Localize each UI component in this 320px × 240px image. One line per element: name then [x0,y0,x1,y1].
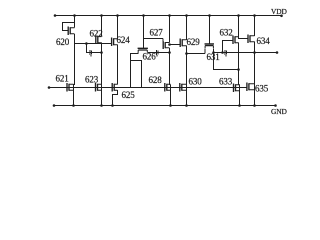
node cap1 to 622 source [100,51,103,54]
node cap2 to 627 source [168,51,171,54]
wire 627 gate stub [162,39,164,42]
node output junction [253,51,256,54]
node GND tap [253,104,256,107]
capacitor C1 [90,50,92,57]
node 632 gate junction [221,51,224,54]
node 631 to 632 source junction [237,68,240,71]
svg-text:623: 623 [85,74,99,84]
wire 631 gate to VDD [209,15,211,44]
wire 626 gate to VDD [143,15,145,48]
svg-text:624: 624 [117,35,131,45]
capacitor C3 [225,50,227,57]
wire 622 drain to VDD [101,15,103,37]
wire NMOS gate bias line [49,87,247,89]
wire cap3 line [214,52,255,54]
wire VDD rail [55,15,282,17]
node VDD tap [116,14,119,17]
wire 629 gate line [170,44,181,46]
wire 631 left leg [204,48,206,53]
wire 631 right leg down [214,48,239,69]
transistor 635 [247,83,255,92]
svg-text:620: 620 [56,37,70,47]
svg-text:633: 633 [219,77,233,87]
wire 629 drain to VDD [186,15,188,40]
wire 626-627 gate line [144,38,164,40]
wire 620 gate-drain loop [63,23,75,31]
transistor 620 [68,27,74,36]
wire 632 gate lead [223,41,234,53]
circuit schematic: CMOS bias generator, transistors 620-635 [0,0,316,120]
node GND rail right end [274,104,277,107]
node gate line junction A [85,42,88,45]
node 629 source junction [185,52,188,55]
transistor 621 [67,83,74,92]
svg-text:625: 625 [122,90,136,100]
node GND tap [100,104,103,107]
wire 620 source / 621 drain column [74,34,75,105]
node VDD rail right end [280,15,283,18]
wire 626 right leg to cap2 [147,52,169,54]
svg-text:629: 629 [187,37,201,47]
wire 624 source / 625 drain column [117,45,119,85]
node GND tap [185,104,188,107]
wire 627 source / 628 drain column [170,48,171,106]
transistor 626 [138,48,148,52]
wire 629 source / 630 drain column [186,46,188,106]
transistor 623 [96,83,102,92]
transistor 634 [248,35,255,44]
wire 620 drain to VDD [74,15,76,28]
wire 620-622-624 gate line [75,43,112,45]
transistor 629 [180,39,186,48]
node VDD tap [100,14,103,17]
transistor 628 [165,83,171,92]
wire 632 drain to 634 gate [239,37,249,39]
svg-text:VDD: VDD [271,7,287,16]
wire 629 source to 631 [187,53,206,55]
node GND tap [111,104,114,107]
wire 632 drain to VDD [238,15,240,37]
wire 624 drain to VDD [117,15,119,39]
wire cap1 branch [87,44,102,53]
wire 634 drain to VDD [254,15,256,36]
node VDD tap [142,14,145,17]
svg-text:628: 628 [149,75,163,85]
wire 626 left leg to bias line [131,53,139,88]
svg-text:GND: GND [271,107,287,116]
wire 627 drain to VDD [169,15,171,43]
wire 632 source / 633 drain column [239,43,240,106]
svg-text:634: 634 [257,36,271,46]
node output end [276,51,279,54]
node VDD tap [253,14,256,17]
node VDD tap [208,14,211,17]
wire output line [255,52,278,54]
node VDD tap [185,14,188,17]
wire 626 riser branch [131,61,142,88]
capacitor C2 [156,50,158,57]
node VDD tap [237,14,240,17]
node VDD tap [168,14,171,17]
svg-text:632: 632 [220,28,233,38]
node 629 gate junction [168,43,171,46]
node VDD rail left end [54,14,57,17]
transistor 632 [233,36,239,45]
transistor 625 [112,83,117,92]
transistor 627 [163,41,169,49]
svg-text:630: 630 [189,77,203,87]
wire 622 source / 623 drain column [101,43,103,106]
node GND rail left end [53,104,56,107]
wire GND rail [54,105,276,107]
svg-text:635: 635 [255,84,269,94]
node cap3 left junction [212,51,215,54]
svg-text:627: 627 [150,27,164,37]
node VDD tap [73,14,76,17]
transistor 624 [112,38,118,47]
node GND tap [72,104,75,107]
transistor 633 [234,84,240,93]
wire 634 source / 635 drain column [254,42,256,106]
transistor 630 [180,83,187,92]
transistor 631 [205,44,215,48]
wire 625 source to GND [113,90,118,105]
svg-text:621: 621 [56,74,69,84]
node GND tap [169,104,172,107]
svg-text:622: 622 [90,28,103,38]
node GND tap [238,104,241,107]
node bias line left end [48,86,51,89]
transistor 622 [96,35,102,44]
